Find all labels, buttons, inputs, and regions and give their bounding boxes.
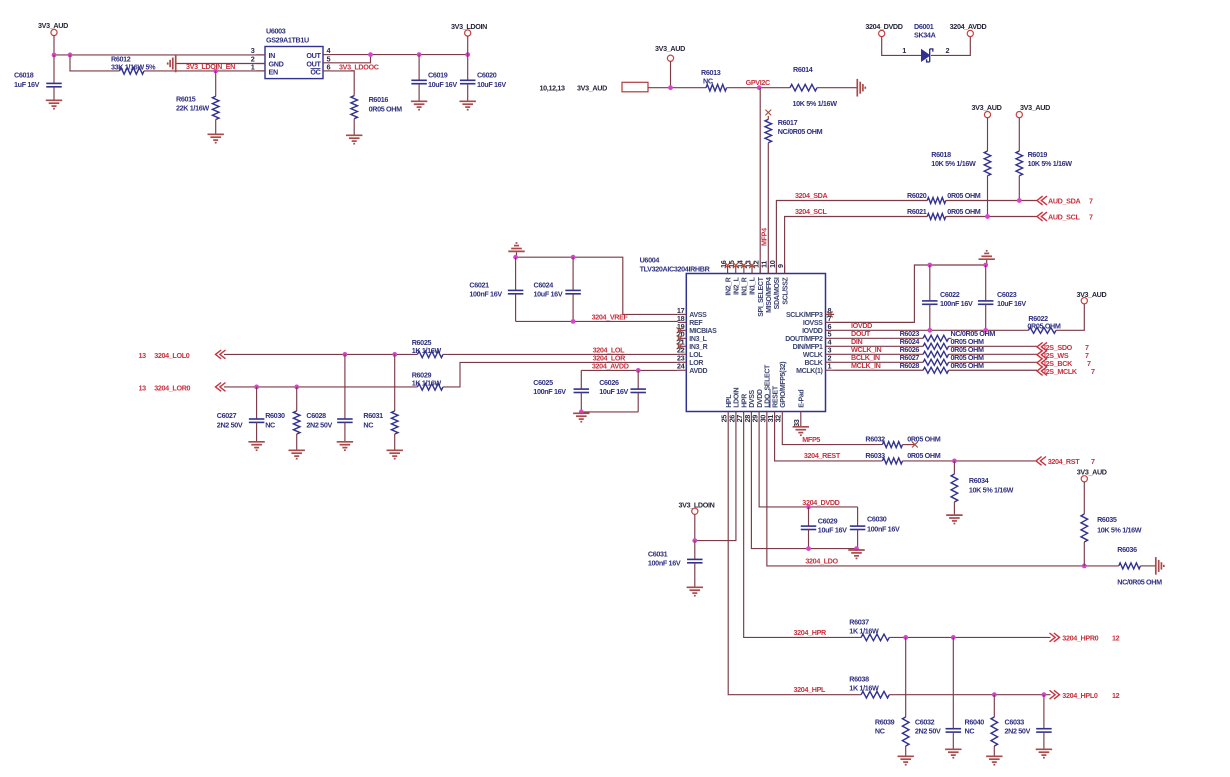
ground at C6020 (460, 101, 476, 109)
svg-text:R6033: R6033 (865, 451, 885, 460)
node junction C6030 bottom (854, 546, 859, 551)
svg-text:3204_HPR0: 3204_HPR0 (1062, 634, 1098, 643)
ground at E-Pad (793, 427, 809, 435)
node junction C6024 top (571, 255, 576, 260)
svg-text:LDOIN: LDOIN (734, 387, 741, 407)
svg-text:GPIO/MFP5(32): GPIO/MFP5(32) (780, 362, 787, 408)
resistor R6024 (834, 337, 1037, 349)
svg-text:C6025: C6025 (533, 378, 553, 387)
svg-text:REF: REF (689, 320, 703, 327)
ground (inverted) above C6023 (979, 251, 995, 265)
resistor R6029 (412, 370, 443, 390)
svg-text:MCLK(1): MCLK(1) (796, 368, 822, 375)
pin 10 of U6004 (SDA/MOSI) (768, 260, 781, 309)
power symbol 3V3_AUD (top left) (38, 21, 68, 55)
wire 3204_DVDD from pin 29 (759, 420, 857, 507)
svg-text:R6040: R6040 (965, 717, 985, 726)
pin 7 of U6004 (IOVSS) (803, 314, 834, 327)
pin 27 of U6004 (HPR) (735, 394, 748, 423)
svg-text:3204_HPL0: 3204_HPL0 (1062, 691, 1098, 700)
svg-text:10uF 16V: 10uF 16V (997, 299, 1026, 308)
no-connect X after R6032 (912, 442, 918, 448)
pin 12 of U6004 (SPI_SELECT) (752, 260, 765, 317)
svg-text:10K 5% 1/16W: 10K 5% 1/16W (1028, 159, 1073, 168)
svg-text:100nF 16V: 100nF 16V (867, 524, 900, 533)
wire D6001 cathode to 3204_AVDD (931, 37, 970, 56)
wire off-page to R6013 (648, 87, 706, 89)
svg-text:LOL: LOL (689, 352, 703, 359)
pin 1 of U6004 (MCLK(1)) (796, 362, 834, 375)
svg-text:HPL: HPL (726, 394, 733, 408)
ground at C6027 (248, 442, 264, 450)
svg-text:R6035: R6035 (1097, 515, 1117, 524)
capacitor C6025 (533, 370, 589, 412)
resistor R6025 (412, 338, 443, 358)
pin 31 of U6004 (RESET) (766, 385, 779, 422)
svg-text:R6019: R6019 (1028, 150, 1048, 159)
wire OC to R6016 (332, 71, 355, 96)
ground at C6019 (411, 101, 427, 109)
svg-text:0R05 OHM: 0R05 OHM (947, 191, 981, 200)
resistor R6037 (849, 617, 889, 640)
no-connect X on pin 15 (733, 262, 739, 268)
overline for RESET pin label (769, 389, 771, 408)
svg-text:NC/0R05 OHM: NC/0R05 OHM (1117, 577, 1162, 586)
pin 25 of U6004 (HPL) (720, 394, 733, 423)
svg-text:C6028: C6028 (306, 411, 326, 420)
svg-text:3204_AVDD: 3204_AVDD (950, 22, 987, 31)
node junction 3V3_AUD drop (668, 85, 673, 90)
wire 3204_REST from pin 31 (775, 420, 883, 461)
svg-text:0R05 OHM: 0R05 OHM (951, 361, 985, 370)
off-page reference 3V3_AUD pages 10,12,13 (540, 82, 649, 92)
svg-text:R6021: R6021 (907, 207, 927, 216)
wire AVDD caps bottom rail (581, 411, 638, 413)
wire R6014 to ground (817, 87, 857, 89)
svg-text:R6037: R6037 (849, 617, 869, 626)
svg-text:3V3_AUD: 3V3_AUD (1020, 103, 1050, 112)
svg-text:3204_SCL: 3204_SCL (795, 207, 828, 216)
svg-text:13: 13 (139, 383, 147, 392)
svg-text:SDA/MOSI: SDA/MOSI (774, 277, 781, 309)
svg-text:2: 2 (946, 46, 950, 55)
node junction C6027 (254, 385, 259, 390)
pin 29 of U6004 (DVDD) (751, 389, 764, 422)
svg-text:2N2 50V: 2N2 50V (915, 726, 941, 735)
svg-text:SPI_SELECT: SPI_SELECT (758, 276, 765, 316)
svg-text:33: 33 (792, 419, 801, 427)
svg-text:3V3_AUD: 3V3_AUD (1077, 467, 1107, 476)
resistor R6016 (351, 95, 402, 135)
resistor R6034 (951, 461, 1014, 514)
capacitor C6023 (978, 265, 1026, 330)
svg-text:R6039: R6039 (875, 717, 895, 726)
capacitor C6021 (469, 257, 523, 321)
power symbol 3V3_LDOIN (451, 22, 487, 55)
svg-text:12: 12 (1112, 691, 1120, 700)
resistor R6030 (265, 387, 300, 450)
off-page connector 3204_HPR0 page 12 (1050, 633, 1120, 643)
svg-text:MICBIAS: MICBIAS (689, 328, 717, 335)
svg-text:IN1_L: IN1_L (750, 276, 757, 294)
wire 3V3_AUD rail to U6003 IN (54, 54, 265, 56)
svg-text:MCLK_IN: MCLK_IN (851, 361, 881, 370)
ground at C6018 (46, 100, 62, 108)
node junction C6028 (343, 352, 348, 357)
svg-text:100nF 16V: 100nF 16V (533, 387, 566, 396)
svg-text:100nF 16V: 100nF 16V (648, 558, 681, 567)
off-page connector I2S_WS (1037, 350, 1089, 360)
no-connect X on pin 21 (677, 343, 683, 349)
pin 21 of U6004 (IN3_R) (677, 338, 708, 351)
resistor R6033 (865, 451, 1036, 464)
power symbol 3V3_AUD (R6035) (1077, 467, 1107, 514)
diode D6001 SK34A (902, 22, 949, 62)
wire 3204_LOR row (224, 386, 417, 388)
svg-text:E-Pad: E-Pad (799, 390, 806, 408)
svg-text:SK34A: SK34A (914, 31, 936, 40)
svg-text:2N2 50V: 2N2 50V (1005, 726, 1031, 735)
svg-text:R6015: R6015 (176, 95, 196, 104)
resistor R6020 (907, 191, 981, 204)
svg-text:7: 7 (1089, 213, 1093, 222)
node junction C6023 top (983, 263, 988, 268)
svg-text:R6018: R6018 (931, 150, 951, 159)
node junction C6033 (1042, 692, 1047, 697)
ground at AVDD caps (573, 413, 589, 421)
svg-text:10K 5% 1/16W: 10K 5% 1/16W (1097, 525, 1142, 534)
power symbol 3V3_AUD (middle) (655, 44, 685, 88)
wire IOVSS to caps rail (834, 265, 987, 322)
svg-text:IN2_R: IN2_R (725, 277, 732, 295)
pin 13 of U6004 (IN1_L) (743, 260, 756, 295)
svg-text:6: 6 (327, 62, 331, 71)
wire 3204_HPR from pin 27 (744, 420, 861, 637)
svg-text:R6032: R6032 (865, 435, 885, 444)
ground at R6040 (986, 756, 1002, 764)
node junction R6019-SDA (1017, 198, 1022, 203)
svg-text:10uF 16V: 10uF 16V (534, 290, 563, 299)
svg-text:C6018: C6018 (14, 71, 34, 80)
svg-text:SCL/SSZ: SCL/SSZ (782, 276, 789, 304)
no-connect X on pin 8 (827, 312, 833, 318)
capacitor C6018 (14, 55, 62, 100)
resistor R6021 (907, 207, 981, 220)
node junction C6029 top (806, 505, 811, 510)
pin 4 of U6003 (323, 46, 332, 55)
svg-text:RESET: RESET (772, 385, 779, 408)
svg-text:3V3_AUD: 3V3_AUD (38, 21, 68, 30)
node junction at R6015 (213, 69, 218, 74)
svg-text:GS29A1TB1U: GS29A1TB1U (266, 36, 309, 45)
resistor R6019 (1016, 150, 1072, 201)
pin 8 of U6004 (SCLK/MFP3) (786, 306, 834, 319)
svg-text:24: 24 (677, 362, 686, 371)
resistor R6014 (790, 65, 837, 108)
node junction at C6019 (417, 52, 422, 57)
power symbol 3204_DVDD (865, 22, 902, 37)
svg-text:10K 5% 1/16W: 10K 5% 1/16W (931, 159, 976, 168)
svg-text:10K 5% 1/16W: 10K 5% 1/16W (969, 486, 1014, 495)
power symbol 3V3_AUD (R6019) (1016, 103, 1050, 151)
svg-text:R6017: R6017 (778, 118, 798, 127)
chassis ground at R6014 (sideways) (857, 79, 865, 97)
svg-text:7: 7 (1091, 367, 1095, 376)
svg-text:C6027: C6027 (217, 411, 237, 420)
pin 19 of U6004 (MICBIAS) (677, 322, 717, 335)
svg-text:U6004: U6004 (640, 256, 660, 265)
wire R6037 to 3204_HPR0 (889, 636, 1050, 638)
svg-text:0R05 OHM: 0R05 OHM (369, 105, 403, 114)
wire 3204_VREF to REF pin (516, 320, 678, 322)
pin 4 of U6004 (DIN/MFP1) (793, 338, 834, 351)
off-page connector AUD_SDA (1037, 196, 1093, 206)
svg-text:1: 1 (828, 362, 832, 371)
off-page connector AUD_SCL (1037, 212, 1093, 222)
node junction C6023 bottom (983, 328, 988, 333)
resistor R6031 (363, 354, 398, 449)
pin 20 of U6004 (IN3_L) (677, 330, 708, 343)
wire R6029 to LOR pin (443, 362, 678, 387)
pin 3 of U6003 (251, 46, 265, 55)
node junction R6031 (392, 352, 397, 357)
ground at U6003 GND pin (sideways) (168, 55, 265, 73)
off-page connector 3204_LOR0 page 13 (139, 383, 226, 393)
power symbol 3V3_LDOIN (bottom) (679, 501, 715, 541)
svg-text:0R05 OHM: 0R05 OHM (907, 451, 941, 460)
svg-text:10uF 16V: 10uF 16V (477, 80, 506, 89)
svg-text:R6020: R6020 (907, 191, 927, 200)
svg-text:AVDD: AVDD (689, 368, 707, 375)
svg-text:HPR: HPR (741, 394, 748, 408)
ground at R6039 (898, 756, 914, 764)
svg-text:1K 1/16W: 1K 1/16W (849, 684, 879, 693)
svg-text:1uF 16V: 1uF 16V (14, 80, 40, 89)
resistor R6036 (1117, 545, 1162, 587)
node junction R6018-SCL (985, 214, 990, 219)
svg-text:7: 7 (1091, 457, 1095, 466)
svg-text:3204_AVDD: 3204_AVDD (592, 361, 629, 370)
no-connect X on pin 16 (725, 262, 731, 268)
svg-text:IN2_L: IN2_L (733, 276, 740, 294)
capacitor C6022 (922, 265, 973, 330)
resistor R6039 (875, 637, 909, 755)
pin 22 of U6004 (LOL) (677, 346, 703, 359)
svg-text:1K 1/16W: 1K 1/16W (412, 346, 442, 355)
ground at R6015 (208, 134, 224, 142)
svg-text:3V3_AUD: 3V3_AUD (577, 84, 607, 93)
no-connect X on pin 19 (677, 327, 683, 333)
node junction C6021 top (513, 255, 518, 260)
svg-text:BCLK: BCLK (804, 360, 822, 367)
ground at C6032 (945, 749, 961, 757)
pin 17 of U6004 (AVSS) (677, 306, 707, 319)
wire R6025 to LOL pin (443, 353, 678, 355)
svg-text:C6024: C6024 (534, 281, 554, 290)
capacitor C6024 (534, 257, 581, 321)
codec U6004 TLV320AIC3204IRHBR (640, 256, 826, 412)
off-page connector I2S_MCLK (1037, 367, 1095, 377)
svg-text:2N2 50V: 2N2 50V (217, 420, 243, 429)
svg-text:2N2 50V: 2N2 50V (306, 420, 332, 429)
off-page connector 3204_LOL0 page 13 (139, 350, 226, 360)
resistor R6027 (834, 353, 1037, 365)
svg-text:DIN/MFP1: DIN/MFP1 (793, 344, 823, 351)
svg-text:3204_HPR: 3204_HPR (794, 628, 828, 637)
node junction C6032 (951, 635, 956, 640)
pin 28 of U6004 (DVSS) (743, 389, 756, 422)
ground at R6031 (387, 450, 403, 458)
pin 30 of U6004 (LDO_SELECT) (758, 364, 771, 422)
ground at C6033 (1036, 749, 1052, 757)
ground at R6016 (346, 135, 362, 143)
capacitor C6027 (217, 387, 265, 441)
resistor R6032 (865, 435, 940, 448)
wire 3204_DVDD to D6001 anode (882, 37, 922, 56)
pin 33 of U6004 (E-Pad) (792, 390, 805, 427)
resistor R6038 (849, 675, 889, 698)
node junction at R6012 branch (68, 53, 73, 58)
svg-text:IN3_L: IN3_L (689, 336, 707, 343)
svg-text:C6026: C6026 (599, 378, 619, 387)
svg-text:1: 1 (902, 46, 906, 55)
svg-text:1K 1/16W: 1K 1/16W (412, 378, 442, 387)
svg-text:3204_RST: 3204_RST (1048, 457, 1081, 466)
wire R6020 to AUD_SDA (946, 200, 1037, 202)
wire R6022 to 3V3_AUD (1056, 304, 1084, 331)
svg-text:3204_LDO: 3204_LDO (805, 556, 838, 565)
svg-text:100nF 16V: 100nF 16V (940, 299, 973, 308)
wire 3204_SCL from pin 9 (785, 217, 928, 274)
pin 24 of U6004 (AVDD) (677, 362, 708, 375)
off-page connector I2S_BCK (1037, 358, 1091, 368)
svg-text:R6014: R6014 (793, 65, 813, 74)
no-connect X on pin 14 (741, 262, 747, 268)
svg-text:C6031: C6031 (648, 549, 668, 558)
svg-text:C6023: C6023 (997, 290, 1017, 299)
svg-text:3204_REST: 3204_REST (804, 451, 841, 460)
pin 2 of U6003 (251, 55, 265, 64)
pin 26 of U6004 (LDOIN) (727, 387, 740, 422)
svg-text:3204_DVDD: 3204_DVDD (865, 22, 902, 31)
node junction R6035-LDO (1082, 564, 1087, 569)
svg-text:IOVSS: IOVSS (803, 320, 823, 327)
svg-text:MISO/MFP4: MISO/MFP4 (766, 277, 773, 313)
pin 2 of U6004 (BCLK) (804, 354, 834, 367)
node junction OUT join (368, 52, 373, 57)
svg-text:DVDD: DVDD (757, 389, 764, 408)
svg-text:IOVDD: IOVDD (802, 328, 823, 335)
wire R6012 to EN pin (144, 70, 265, 72)
svg-text:3204_SDA: 3204_SDA (795, 191, 828, 200)
pin 15 of U6004 (IN2_L) (727, 260, 740, 295)
svg-text:NC: NC (265, 420, 275, 429)
wire 3204_SDA from pin 10 (776, 201, 927, 274)
node junction R6040 (992, 692, 997, 697)
wire OUT pin5 join (332, 55, 371, 63)
svg-text:100nF 16V: 100nF 16V (469, 290, 502, 299)
svg-text:AVSS: AVSS (689, 312, 707, 319)
svg-text:13: 13 (139, 351, 147, 360)
svg-text:I2S_MCLK: I2S_MCLK (1044, 367, 1078, 376)
capacitor C6032 (915, 637, 961, 748)
capacitor C6020 (460, 55, 506, 101)
svg-text:3204_LOR0: 3204_LOR0 (154, 383, 190, 392)
no-connect X on pin 13 (749, 262, 755, 268)
resistor R6040 (965, 695, 998, 756)
power symbol 3V3_AUD (R6018) (972, 103, 1002, 151)
capacitor C6031 (648, 541, 703, 587)
wire 3204_LDO from pin 30 (767, 420, 1119, 566)
svg-text:SCLK/MFP3: SCLK/MFP3 (786, 312, 823, 319)
svg-text:R6028: R6028 (900, 361, 920, 370)
node junction C6022 top (927, 263, 932, 268)
svg-text:R6036: R6036 (1117, 545, 1137, 554)
pin 11 of U6004 (MISO/MFP4) (760, 261, 773, 313)
svg-text:7: 7 (1089, 197, 1093, 206)
svg-text:3204_HPL: 3204_HPL (794, 685, 827, 694)
svg-text:C6022: C6022 (940, 290, 960, 299)
regulator U6003 (265, 27, 323, 79)
svg-text:C6019: C6019 (428, 71, 448, 80)
pin 23 of U6004 (LOR) (677, 354, 703, 367)
chassis ground at R6036 (sideways) (1156, 557, 1164, 575)
pin 1 of U6003 (251, 62, 265, 71)
svg-text:C6029: C6029 (818, 516, 838, 525)
pin 9 of U6004 (SCL/SSZ) (776, 264, 789, 305)
svg-text:10,12,13: 10,12,13 (540, 84, 566, 93)
wire 3204_LOL row (224, 353, 417, 355)
resistor R6035 (1081, 514, 1142, 566)
svg-text:R6030: R6030 (265, 411, 285, 420)
svg-text:3204_VREF: 3204_VREF (592, 312, 629, 321)
svg-text:AUD_SCL: AUD_SCL (1048, 213, 1080, 222)
svg-text:DVSS: DVSS (749, 389, 756, 407)
resistor R6018 (931, 150, 991, 217)
resistor R6026 (834, 345, 1037, 357)
ground (inverted) above VREF caps (508, 243, 524, 257)
wire R6013 to R6014 (727, 87, 790, 89)
pin 14 of U6004 (IN1_R) (735, 259, 748, 295)
node junction C6031 (692, 538, 697, 543)
wire SPI_SELECT to GPVI2C (759, 88, 761, 274)
capacitor C6019 (411, 55, 457, 101)
node junction C6026 (636, 368, 641, 373)
svg-text:10K 5% 1/16W: 10K 5% 1/16W (793, 99, 838, 108)
svg-text:C6033: C6033 (1005, 717, 1025, 726)
node junction R6034 (952, 459, 957, 464)
svg-text:1: 1 (251, 62, 255, 71)
svg-text:10uF 16V: 10uF 16V (428, 80, 457, 89)
svg-text:NC: NC (965, 726, 975, 735)
svg-text:TLV320AIC3204IRHBR: TLV320AIC3204IRHBR (640, 265, 711, 274)
power symbol 3V3_AUD (R6022) (1076, 290, 1106, 304)
off-page connector 3204_RST (1036, 457, 1095, 467)
ground at DVSS rail (848, 550, 864, 558)
svg-text:10uF 16V: 10uF 16V (599, 387, 628, 396)
ground at C6031 (687, 587, 703, 595)
svg-text:C6032: C6032 (915, 717, 935, 726)
node junction C6029 bottom (806, 546, 811, 551)
pin 5 of U6003 (323, 54, 332, 63)
svg-text:IN1_R: IN1_R (742, 277, 749, 295)
svg-text:C6021: C6021 (469, 281, 489, 290)
svg-text:NC/0R05 OHM: NC/0R05 OHM (778, 127, 823, 136)
off-page connector I2S_SDO (1037, 342, 1089, 352)
pin 16 of U6004 (IN2_R) (719, 260, 732, 295)
pin 18 of U6004 (REF) (677, 314, 703, 327)
ground at R6030 (289, 450, 305, 458)
